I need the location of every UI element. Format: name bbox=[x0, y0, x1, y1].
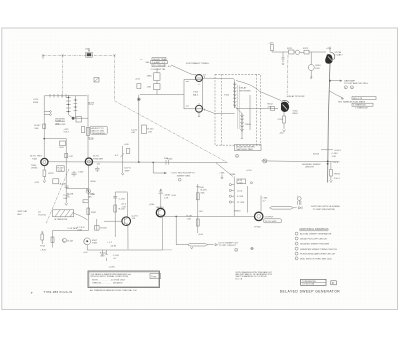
svg-text:TP160: TP160 bbox=[334, 174, 341, 176]
svg-text:B-167: B-167 bbox=[67, 241, 74, 243]
svg-text:C180: C180 bbox=[199, 187, 205, 189]
svg-text:R166: R166 bbox=[33, 102, 39, 104]
svg-text:TIME/CM . . . . . . . . . .: TIME/CM . . . . . . . . . . DELAYED bbox=[92, 281, 123, 284]
svg-text:1.4K: 1.4K bbox=[164, 197, 169, 199]
svg-text:5.6K: 5.6K bbox=[78, 230, 83, 232]
svg-text:7308: 7308 bbox=[32, 158, 38, 160]
svg-text:T160: T160 bbox=[224, 95, 230, 97]
svg-text:1.8K: 1.8K bbox=[91, 194, 96, 196]
svg-text:R186: R186 bbox=[230, 174, 236, 176]
svg-text:DELAYED SWEEP: DELAYED SWEEP bbox=[302, 163, 321, 166]
svg-text:DLY'D: DLY'D bbox=[125, 168, 132, 170]
svg-text:+21.6: +21.6 bbox=[333, 162, 339, 164]
svg-text:WITH NO INPUT SIGNAL CONDITION: WITH NO INPUT SIGNAL CONDITIONS bbox=[91, 275, 129, 278]
svg-text:6AL5: 6AL5 bbox=[193, 94, 199, 97]
svg-text:56K: 56K bbox=[35, 128, 39, 130]
svg-text:180K: 180K bbox=[147, 76, 153, 78]
svg-text:LENGTH: LENGTH bbox=[305, 166, 314, 168]
svg-text:R-180: R-180 bbox=[201, 190, 208, 192]
svg-text:+100: +100 bbox=[171, 195, 177, 197]
svg-text:1 TIMES/CM: 1 TIMES/CM bbox=[355, 108, 368, 110]
svg-text:6BL8: 6BL8 bbox=[293, 113, 299, 115]
svg-text:TRIGGERING: TRIGGERING bbox=[91, 133, 105, 135]
svg-text:R-158: R-158 bbox=[119, 209, 126, 211]
svg-text:4-7 MS: 4-7 MS bbox=[237, 196, 244, 198]
svg-text:DELAY PICK-OFF CIRCUIT: DELAY PICK-OFF CIRCUIT bbox=[300, 238, 328, 241]
svg-text:+100: +100 bbox=[135, 79, 141, 81]
svg-text:V152: V152 bbox=[193, 92, 199, 94]
svg-text:ADJUST TO: ADJUST TO bbox=[91, 127, 103, 130]
svg-text:DLY'D TRIG: DLY'D TRIG bbox=[30, 156, 42, 158]
svg-text:47K: 47K bbox=[268, 106, 272, 108]
svg-text:NOTE . . . . . . . . . . .: NOTE . . . . . . . . . . . 20 V/CM ONLY bbox=[92, 279, 126, 281]
svg-text:SUPPLIED WITH 5B SIGNAL: SUPPLIED WITH 5B SIGNAL bbox=[311, 205, 341, 208]
svg-text:21.7 MS: 21.7 MS bbox=[237, 202, 245, 204]
svg-text:+225: +225 bbox=[269, 43, 275, 45]
svg-text:R-152: R-152 bbox=[148, 129, 155, 131]
svg-text:1.5K: 1.5K bbox=[148, 131, 153, 133]
svg-text:TRIG: TRIG bbox=[31, 165, 37, 167]
svg-text:C162: C162 bbox=[278, 119, 284, 121]
svg-text:8.2K: 8.2K bbox=[315, 68, 320, 70]
svg-text:2.3 HORIZ TBL: 2.3 HORIZ TBL bbox=[151, 69, 167, 71]
svg-text:R160: R160 bbox=[91, 181, 97, 183]
svg-text:B167: B167 bbox=[92, 240, 98, 242]
svg-text:×--: ×-- bbox=[140, 58, 143, 61]
svg-text:C-158: C-158 bbox=[119, 199, 126, 201]
svg-text:DO NOT USE: DO NOT USE bbox=[303, 284, 315, 286]
svg-text:TO DIST AMP SW TRIG: TO DIST AMP SW TRIG bbox=[344, 82, 368, 85]
svg-text:V173B: V173B bbox=[335, 52, 342, 54]
svg-text:MOD SWITCH THRU SER 1000: MOD SWITCH THRU SER 1000 bbox=[300, 259, 332, 261]
svg-text:+ R-B: + R-B bbox=[40, 249, 46, 251]
svg-text:T160B: T160B bbox=[245, 124, 252, 126]
svg-text:SWP CAL: SWP CAL bbox=[18, 210, 29, 213]
svg-text:SEL 4.7K: SEL 4.7K bbox=[353, 98, 363, 100]
svg-text:DELAYED: DELAYED bbox=[55, 117, 65, 120]
svg-text:TRIGGER: TRIGGER bbox=[93, 158, 103, 160]
svg-text:NETWORK: NETWORK bbox=[240, 90, 252, 92]
svg-text:TD160: TD160 bbox=[100, 227, 107, 229]
svg-text:VOLT: VOLT bbox=[64, 132, 70, 134]
svg-text:+22.4: +22.4 bbox=[121, 204, 127, 206]
svg-text:56K: 56K bbox=[201, 192, 205, 194]
svg-text:MATCHED PAIR: MATCHED PAIR bbox=[237, 148, 254, 151]
svg-text:-150: -150 bbox=[279, 133, 284, 135]
svg-text:+ 1.2: + 1.2 bbox=[107, 242, 113, 244]
svg-text:LEVEL: LEVEL bbox=[31, 168, 39, 170]
svg-text:100K: 100K bbox=[85, 48, 91, 50]
svg-text:DLY'D: DLY'D bbox=[93, 156, 100, 158]
svg-text:TP168: TP168 bbox=[254, 227, 261, 229]
svg-text:R-184: R-184 bbox=[313, 153, 320, 155]
svg-text:-14.85: -14.85 bbox=[108, 266, 115, 268]
svg-text:R-247: R-247 bbox=[35, 125, 42, 127]
svg-text:JA2214: JA2214 bbox=[156, 206, 164, 209]
svg-text:ADJ: ADJ bbox=[18, 213, 22, 216]
svg-text:2.2K: 2.2K bbox=[69, 156, 74, 158]
svg-text:SWEEP GEN: SWEEP GEN bbox=[177, 175, 191, 177]
svg-text:+225: +225 bbox=[64, 129, 70, 131]
svg-text:R171: R171 bbox=[287, 48, 293, 50]
svg-text:+225: +225 bbox=[34, 182, 40, 184]
svg-text:R-181: R-181 bbox=[187, 216, 194, 218]
svg-text:+100B: +100B bbox=[163, 195, 170, 197]
svg-text:5 ms: 5 ms bbox=[151, 276, 157, 279]
svg-text:R167: R167 bbox=[91, 212, 97, 214]
svg-text:OUTPUT: OUTPUT bbox=[265, 217, 275, 219]
svg-text:+21.6: +21.6 bbox=[246, 170, 252, 172]
svg-text:SW160: SW160 bbox=[234, 210, 240, 212]
svg-text:TO SWP (INDICATOR): TO SWP (INDICATOR) bbox=[313, 208, 336, 211]
svg-text:+100: +100 bbox=[124, 144, 130, 146]
svg-text:SWP: SWP bbox=[125, 170, 131, 172]
svg-text:1.5K: 1.5K bbox=[187, 218, 192, 220]
svg-text:R162: R162 bbox=[268, 104, 274, 106]
svg-text:+73S: +73S bbox=[238, 182, 243, 184]
svg-text:DLY'D TRIG PICKOFF TO: DLY'D TRIG PICKOFF TO bbox=[172, 173, 196, 175]
svg-text:R247: R247 bbox=[49, 173, 55, 175]
svg-text:10 - 100 mS: 10 - 100 mS bbox=[153, 65, 165, 67]
svg-text:CONFIDENTIAL: CONFIDENTIAL bbox=[302, 280, 316, 283]
svg-text:DELAY PICKOFF: DELAY PICKOFF bbox=[288, 95, 306, 98]
svg-text:7308: 7308 bbox=[92, 243, 98, 245]
svg-text:+ SEL: + SEL bbox=[219, 173, 226, 175]
svg-text:2.2K: 2.2K bbox=[58, 170, 63, 172]
svg-text:S12: S12 bbox=[88, 102, 94, 106]
svg-text:C-247: C-247 bbox=[63, 195, 70, 197]
svg-text:L184: L184 bbox=[263, 198, 269, 200]
svg-text:C-184: C-184 bbox=[332, 153, 339, 155]
svg-text:+225: +225 bbox=[33, 99, 39, 101]
svg-text:1-0.05: 1-0.05 bbox=[237, 191, 242, 193]
svg-text:+250: +250 bbox=[326, 48, 332, 50]
svg-text:FOR TRANSIT TIMING: FOR TRANSIT TIMING bbox=[186, 62, 209, 65]
svg-text:+100 V: +100 V bbox=[334, 150, 342, 152]
svg-text:Q164: Q164 bbox=[149, 204, 155, 206]
svg-text:SWEEPER SWEEP TIMING SWITCH: SWEEPER SWEEP TIMING SWITCH bbox=[300, 249, 337, 251]
svg-text:DELAYED SWEEP TRIGGER: DELAYED SWEEP TRIGGER bbox=[300, 243, 329, 246]
svg-text:C160: C160 bbox=[78, 172, 84, 174]
svg-text:A-248: A-248 bbox=[60, 183, 67, 186]
svg-text:TRIGGER: TRIGGER bbox=[55, 121, 65, 123]
svg-text:TYPE 3B5 PLUG-IN: TYPE 3B5 PLUG-IN bbox=[44, 290, 73, 294]
svg-text:B: B bbox=[332, 281, 334, 285]
svg-text:-150 V: -150 V bbox=[334, 178, 341, 180]
svg-text:Q-174: Q-174 bbox=[132, 215, 139, 217]
svg-text:DLY'D SWP: DLY'D SWP bbox=[265, 221, 277, 223]
svg-text:1.5K: 1.5K bbox=[332, 156, 337, 158]
svg-text:HOLDOFF: HOLDOFF bbox=[55, 124, 66, 126]
svg-text:R172: R172 bbox=[303, 48, 309, 50]
svg-text:HORIZONTAL AMPLIFIER CIRCUIT: HORIZONTAL AMPLIFIER CIRCUIT bbox=[300, 253, 336, 256]
svg-text:R150: R150 bbox=[167, 159, 173, 161]
svg-text:V162: V162 bbox=[293, 111, 299, 113]
svg-text:ALL READINGS MADE AT LEVEL TIM: ALL READINGS MADE AT LEVEL TIME DIAL 1.0… bbox=[90, 289, 138, 292]
svg-text:GATE AMP: GATE AMP bbox=[344, 79, 356, 82]
svg-text:B.O. LB: B.O. LB bbox=[236, 278, 243, 280]
svg-text:R184: R184 bbox=[315, 65, 321, 67]
svg-text:...6.5: ...6.5 bbox=[166, 66, 172, 68]
svg-text:DLY'D SWEEP OUT: DLY'D SWEEP OUT bbox=[219, 242, 239, 244]
svg-text:TO CRT CIRCUIT: TO CRT CIRCUIT bbox=[219, 245, 237, 247]
svg-text:DELAY: DELAY bbox=[240, 87, 248, 90]
svg-text:DELAYED SWEEP GENERATOR: DELAYED SWEEP GENERATOR bbox=[280, 289, 341, 293]
svg-text:+100: +100 bbox=[59, 147, 65, 149]
svg-text:2 TIMES/CM: 2 TIMES/CM bbox=[353, 105, 366, 107]
svg-text:A TIMES/CM: A TIMES/CM bbox=[55, 218, 68, 221]
svg-text:DELAY NETWORK: DELAY NETWORK bbox=[236, 145, 255, 148]
svg-text:C-152: C-152 bbox=[131, 129, 138, 131]
svg-text:C-164: C-164 bbox=[113, 255, 120, 257]
svg-text:+100: +100 bbox=[198, 234, 204, 236]
svg-text:TP-B: TP-B bbox=[40, 246, 46, 248]
svg-text:-14.85: -14.85 bbox=[110, 246, 117, 248]
svg-text:ACTUAL SWEEP GENERATOR: ACTUAL SWEEP GENERATOR bbox=[300, 233, 332, 236]
svg-text:1.8K: 1.8K bbox=[147, 87, 152, 89]
svg-text:VOLTS): VOLTS) bbox=[38, 214, 46, 216]
